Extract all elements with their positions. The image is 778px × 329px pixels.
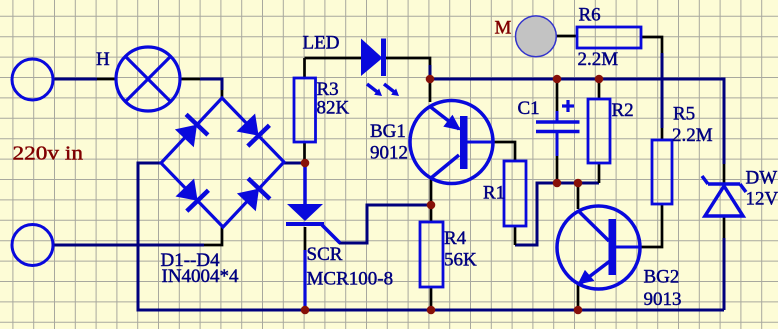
svg-text:2.2M: 2.2M <box>672 125 713 146</box>
svg-text:M: M <box>495 18 512 39</box>
svg-text:56K: 56K <box>444 250 477 271</box>
svg-text:2.2M: 2.2M <box>578 49 619 70</box>
svg-text:82K: 82K <box>317 98 350 119</box>
svg-text:R2: R2 <box>612 100 634 121</box>
svg-text:R1: R1 <box>483 183 505 204</box>
svg-text:H: H <box>96 49 110 70</box>
svg-text:IN4004*4: IN4004*4 <box>162 266 240 287</box>
svg-text:12V: 12V <box>746 189 778 210</box>
svg-text:MCR100-8: MCR100-8 <box>307 269 394 290</box>
svg-text:220v in: 220v in <box>13 143 84 165</box>
svg-text:R6: R6 <box>579 5 601 26</box>
svg-text:R4: R4 <box>444 228 467 249</box>
svg-text:C1: C1 <box>518 98 540 119</box>
svg-text:DW: DW <box>746 168 778 189</box>
svg-text:9012: 9012 <box>370 143 408 164</box>
svg-text:R5: R5 <box>673 104 695 125</box>
svg-text:BG1: BG1 <box>370 121 406 142</box>
svg-text:LED: LED <box>303 33 340 54</box>
svg-text:BG2: BG2 <box>644 267 680 288</box>
svg-text:SCR: SCR <box>307 244 343 265</box>
svg-text:9013: 9013 <box>644 289 682 310</box>
